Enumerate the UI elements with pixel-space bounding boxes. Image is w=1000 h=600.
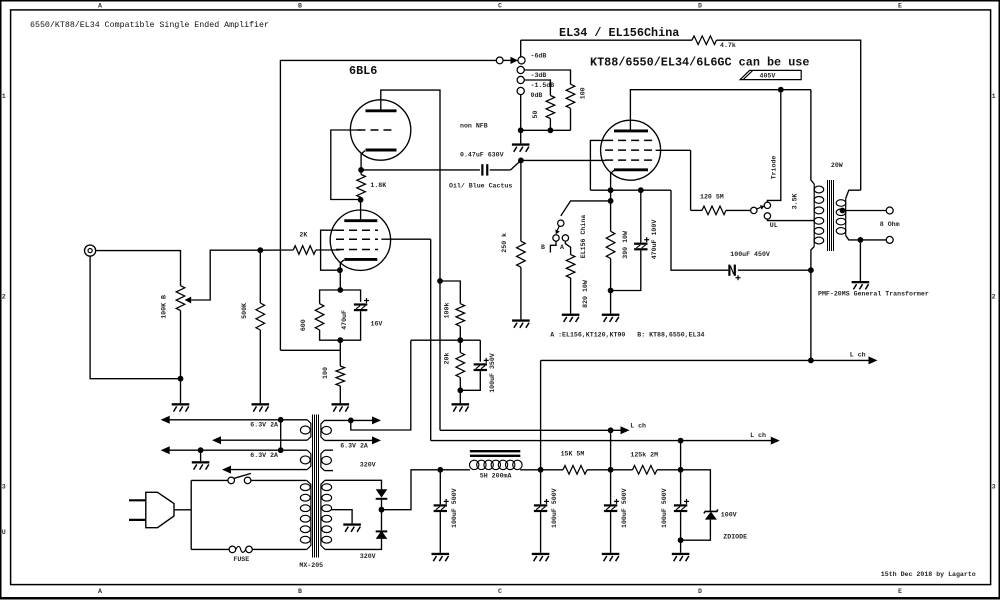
svg-text:20W: 20W: [831, 162, 843, 169]
wire 2K to grid g1: [316, 249, 337, 251]
arrow heater rail A: [161, 416, 170, 424]
arrow heater right bottom: [372, 436, 381, 444]
wire AC split: [190, 480, 192, 549]
svg-text:2K: 2K: [299, 232, 307, 239]
wire connector to arrow: [503, 59, 511, 61]
label L ch B+ rail: [850, 352, 866, 359]
wire heater rail B: [221, 439, 308, 441]
node V1a plate divider tap: [437, 278, 443, 284]
node divider tap: [457, 337, 463, 343]
wire B stub: [550, 241, 556, 252]
svg-text:2: 2: [992, 293, 996, 300]
stub winding lead top: [324, 449, 333, 451]
ground cap2: [532, 553, 550, 561]
frame zone number 3 right: [992, 483, 996, 490]
resistor 50: [546, 96, 555, 119]
ground cathode network: [332, 403, 350, 411]
label A contact: [560, 244, 564, 251]
wire D1 to node: [381, 500, 383, 510]
wire 50 bottom: [549, 119, 551, 131]
label L ch rail1: [630, 423, 646, 430]
label 470uF 100V: [651, 220, 658, 260]
wire 470uF100V top: [640, 190, 642, 242]
wire HV top lead: [325, 480, 382, 489]
svg-text:MX-205: MX-205: [299, 562, 323, 569]
terminal 8 ohm hot: [886, 207, 893, 214]
label tube choice note: [550, 332, 704, 339]
wire 500K bottom: [259, 330, 261, 403]
wire heater right bottom: [324, 439, 372, 441]
wire 390 top: [610, 190, 612, 231]
wire cap2 stem top: [540, 470, 542, 505]
svg-text:D: D: [698, 588, 702, 595]
label PMF-20MS General Transformer: [818, 290, 929, 297]
svg-text:100uF 500V: 100uF 500V: [661, 488, 668, 528]
svg-text:100k: 100k: [443, 303, 450, 319]
wire OPT primary bottom lead: [811, 247, 814, 271]
wire 390 bottom: [610, 259, 612, 314]
resistor 250 k: [517, 241, 526, 267]
node B+ cap1: [437, 467, 443, 473]
wire cathode bus to cap: [671, 190, 728, 270]
wire 500K top: [259, 250, 261, 303]
label L ch rail2: [750, 432, 766, 439]
wire pot bottom to ground: [180, 379, 182, 404]
switch AB contact A: [562, 235, 568, 241]
label 250 k: [501, 233, 508, 253]
svg-text:0.47uF 630V: 0.47uF 630V: [460, 152, 504, 159]
wire 250k top: [520, 160, 522, 241]
credit text: [881, 571, 976, 578]
frame zone letter D top: [698, 2, 702, 9]
svg-text:3.5K: 3.5K: [792, 193, 799, 209]
node rail A junction: [278, 417, 284, 423]
wire node3 to 125k: [611, 469, 633, 471]
coil heater winding 1 left: [300, 420, 311, 440]
terminal -3dB: [517, 66, 524, 73]
svg-text:Triode: Triode: [770, 156, 777, 180]
label 100uF 350V: [489, 353, 496, 393]
ground 390: [602, 314, 620, 322]
switch AB lever arrow: [555, 226, 559, 234]
svg-text:470uF 100V: 470uF 100V: [651, 220, 658, 260]
label 500K: [241, 303, 248, 319]
wire choke to node2: [520, 469, 540, 471]
wire 100 top: [339, 340, 341, 366]
svg-text:A :EL156,KT120,KT90 B: KT88,: A :EL156,KT120,KT90 B: KT88,6550,EL34: [550, 332, 704, 339]
resistor 500K: [256, 303, 265, 330]
svg-text:KT88/6550/EL34/6L6GC can be us: KT88/6550/EL34/6L6GC can be use: [590, 56, 809, 70]
arrow into -6dB terminal: [511, 57, 519, 64]
node AB switch tap: [608, 198, 614, 204]
plug AC: [129, 492, 174, 527]
svg-text:5H 200mA: 5H 200mA: [480, 472, 512, 479]
switch power lever: [234, 473, 251, 478]
svg-text:EL34 / EL156China: EL34 / EL156China: [559, 26, 679, 40]
wire plate node to 100k: [440, 281, 460, 304]
title text: [30, 20, 269, 30]
wire Triode to plate node: [767, 90, 780, 202]
wire node4 to zener: [681, 470, 711, 512]
svg-text:0dB: 0dB: [531, 92, 543, 99]
arrow rail1 L ch: [621, 426, 630, 434]
svg-text:UL: UL: [770, 222, 778, 229]
svg-text:100uF 500V: 100uF 500V: [621, 488, 628, 528]
stub winding lead bottom: [324, 470, 333, 472]
wire V2 cathode: [611, 170, 614, 190]
wire V1b plate lead: [360, 200, 362, 221]
svg-text:500K: 500K: [241, 303, 248, 319]
node rail C ground junction: [198, 447, 204, 453]
wire cap to B+ node: [738, 269, 811, 271]
ground pot: [172, 403, 190, 411]
wire heater rail A: [169, 419, 307, 421]
label 100uF 500V #3: [621, 488, 628, 528]
label 4.7k: [720, 42, 736, 49]
wire to 470uF top: [340, 290, 360, 302]
svg-text:C: C: [498, 2, 502, 9]
wire 20k top: [459, 340, 461, 352]
ground 500K: [252, 403, 270, 411]
svg-text:3: 3: [992, 483, 996, 490]
svg-text:Oil/ Blue Cactus: Oil/ Blue Cactus: [449, 183, 512, 190]
wire A to 820: [565, 241, 570, 255]
arrow rail2 L ch: [771, 437, 780, 445]
wire 600 bottom: [320, 330, 341, 340]
wire NFB to -6dB terminal: [520, 40, 522, 57]
wire V1b g3 tie: [321, 230, 340, 270]
svg-text:ZDIODE: ZDIODE: [723, 534, 747, 541]
node ladder common left: [518, 127, 524, 133]
wire common to ground: [520, 130, 522, 143]
svg-text:8 Ohm: 8 Ohm: [880, 221, 900, 228]
node grid bus big tube: [518, 158, 524, 164]
svg-text:390 10W: 390 10W: [622, 231, 629, 259]
svg-text:250 k: 250 k: [501, 233, 508, 253]
wire rail C to ground: [200, 450, 202, 461]
frame zone letter A bottom: [98, 588, 102, 595]
wire jack to pot top: [96, 251, 181, 286]
wire V1a grid: [331, 130, 361, 200]
label 6BL6: [349, 64, 377, 78]
wire 1.8K bottom: [360, 198, 363, 200]
wire 820 bottom: [570, 278, 572, 314]
resistor 4.7k: [692, 36, 717, 45]
label 820 10W: [582, 280, 589, 308]
node pot top wire / 500K junction: [257, 247, 263, 253]
ground cap1: [432, 553, 450, 561]
node rail C junction: [278, 447, 284, 453]
wire 1.8K top: [360, 170, 362, 175]
capacitor 470uF 16V: [354, 298, 369, 311]
wire HV bottom lead: [325, 539, 382, 550]
svg-text:100: 100: [580, 87, 587, 99]
potentiometer 100K B: [176, 286, 185, 311]
capacitor 470uF 100V: [634, 237, 649, 250]
node 1.8K bottom / V2 plate: [358, 197, 364, 203]
resistor 820 10W: [566, 255, 575, 278]
label 100V: [721, 512, 737, 519]
svg-text:-6dB: -6dB: [531, 52, 547, 59]
node B+ rail OPT junction: [808, 358, 814, 364]
svg-text:-3dB: -3dB: [531, 72, 547, 79]
wire rail2 Lch: [431, 440, 772, 442]
wire D2 to node: [381, 510, 383, 531]
label -3dB: [531, 72, 547, 79]
label Triode: [770, 156, 777, 180]
resistor 20k: [456, 353, 465, 378]
capacitor 100uF 500V #1: [434, 499, 449, 512]
svg-text:A: A: [98, 588, 102, 595]
coil heater winding 2 left: [300, 450, 311, 469]
svg-text:15th Dec 2018 by Lagarto: 15th Dec 2018 by Lagarto: [881, 571, 976, 578]
switch contact Triode: [764, 202, 770, 208]
node 390 cap return: [608, 288, 614, 294]
capacitor 100uF 500V #2: [534, 499, 549, 512]
frame zone letter E bottom: [898, 588, 902, 595]
frame zone letter E top: [898, 2, 902, 9]
svg-text:E: E: [898, 2, 902, 9]
arrow heater rail B: [212, 436, 221, 444]
resistor 600: [315, 304, 324, 330]
coil OPT secondary: [836, 199, 846, 236]
label 100K B: [161, 295, 168, 319]
wire B+ to choke: [440, 469, 470, 471]
svg-text:B: B: [298, 2, 302, 9]
wire cap4 stem bottom: [680, 512, 682, 553]
wire screen rail down: [430, 239, 432, 440]
wire 100 bottom: [570, 108, 572, 130]
wire cap2 stem bottom: [540, 512, 542, 553]
svg-text:B: B: [298, 588, 302, 595]
ground divider: [452, 403, 470, 411]
node pot bottom / shield junction: [178, 376, 184, 382]
wire to 600 top: [320, 290, 341, 304]
switch power contact1: [228, 477, 235, 484]
resistor 1.8K: [357, 175, 366, 198]
svg-text:A: A: [98, 2, 102, 9]
node secondary ground junction: [858, 237, 864, 243]
svg-text:L ch: L ch: [850, 352, 866, 359]
svg-text:820 10W: 820 10W: [582, 280, 589, 308]
label -1.5dB: [531, 82, 555, 89]
wire heater rail C: [169, 449, 307, 451]
frame zone number 2 right: [992, 293, 996, 300]
arrow B+ rail L ch: [869, 356, 878, 364]
wire OPT primary top lead: [811, 90, 814, 184]
label 1.8K: [370, 182, 386, 189]
wire bus to cathode network: [280, 349, 340, 351]
wire OPT secondary bottom lead: [846, 236, 887, 240]
coil primary MX: [300, 480, 311, 549]
node cathode network bottom: [337, 337, 343, 343]
wire V1b g2 to screen rail: [381, 238, 430, 240]
node humdinger junction: [348, 418, 354, 424]
core OPT: [828, 180, 834, 251]
frame zone number 2 left: [2, 293, 6, 300]
wire HV center tap: [332, 510, 353, 524]
svg-text:100uF 450V: 100uF 450V: [730, 251, 770, 258]
wire cap3 stem top: [610, 470, 612, 505]
wire secondary to ground: [859, 240, 861, 281]
wire V2 cathode bus: [590, 189, 671, 191]
svg-text:16V: 16V: [371, 321, 383, 328]
svg-text:E: E: [898, 588, 902, 595]
coil stub winding right: [321, 450, 332, 470]
ground cap3: [602, 553, 620, 561]
frame zone letter D bottom: [698, 588, 702, 595]
label 20W: [831, 162, 843, 169]
node V1b cathode g3 junction: [337, 267, 343, 273]
label 20k: [443, 353, 450, 365]
svg-text:EL156 China: EL156 China: [580, 215, 587, 259]
svg-text:6.3V 2A: 6.3V 2A: [340, 443, 368, 450]
label 6.3V 2A rail C: [250, 452, 278, 459]
svg-text:50: 50: [532, 111, 539, 119]
resistor 125k 2M: [633, 466, 658, 475]
node B+ cap2: [538, 467, 544, 473]
arrow heater rail C: [161, 446, 170, 454]
wire heater bias humdinger: [351, 340, 411, 430]
svg-text:PMF-20MS General Transformer: PMF-20MS General Transformer: [818, 290, 929, 297]
label 15K 5M: [561, 450, 585, 457]
wire grid bus to V2 output tube: [521, 159, 606, 161]
label 16V: [371, 321, 383, 328]
wire UL tap: [767, 219, 814, 221]
svg-text:15K 5M: 15K 5M: [561, 450, 585, 457]
node zener return: [678, 537, 684, 543]
switch UL common: [751, 207, 757, 213]
wire zener bottom: [681, 520, 711, 541]
capacitor 100uF 350V: [474, 358, 489, 371]
wire input bus top: [280, 60, 496, 350]
label 320V top: [360, 462, 376, 469]
switch lever NFB: [511, 160, 521, 170]
wire 250k bottom: [520, 267, 522, 319]
resistor 2K: [293, 246, 316, 255]
fuse F1: [229, 546, 252, 553]
capacitor 100uF 500V #4: [674, 499, 689, 512]
label ZDIODE: [723, 534, 747, 541]
wire B+ takeoff: [382, 470, 441, 510]
input jack J1: [85, 245, 96, 256]
terminal -1.5dB: [517, 76, 524, 83]
diode D2: [376, 530, 388, 539]
svg-text:1.8K: 1.8K: [370, 182, 386, 189]
label 100 cathode: [322, 367, 329, 379]
label 8 Ohm: [880, 221, 900, 228]
wire V1b cathode: [340, 260, 344, 270]
heading EL34 / EL156China: [559, 26, 679, 40]
resistor 100k: [456, 304, 465, 327]
label UL: [770, 222, 778, 229]
svg-text:100uF 350V: 100uF 350V: [489, 353, 496, 393]
node B+ cap3: [608, 467, 614, 473]
wire AB switch feed: [561, 201, 611, 216]
label 320V bottom: [360, 553, 376, 560]
label 600: [300, 319, 307, 331]
wire 125k to node4: [657, 469, 681, 471]
arrow heater rail D: [222, 466, 231, 474]
wire cap4 stem top: [680, 470, 682, 505]
coil OPT primary: [814, 184, 824, 247]
svg-text:6.3V 2A: 6.3V 2A: [250, 452, 278, 459]
svg-text:FUSE: FUSE: [233, 556, 249, 563]
label 100 attenuator: [580, 87, 587, 99]
wire cap1 stem bottom: [439, 512, 441, 553]
wire rail2 to B+ node4: [680, 441, 682, 470]
wire wiper to grid bus: [191, 250, 260, 300]
label MX-205: [299, 562, 323, 569]
svg-text:A: A: [560, 244, 564, 251]
switch contact UL: [764, 213, 770, 219]
wire V1a cathode: [361, 151, 365, 170]
frame zone letter B bottom: [298, 588, 302, 595]
svg-text:U: U: [2, 529, 6, 536]
label non NFB: [460, 123, 488, 130]
wire V1a plate loop: [381, 90, 440, 281]
wire rail A to rail C: [280, 420, 282, 450]
arrow heater right top: [372, 416, 381, 424]
wire NFB top: [521, 39, 692, 41]
node rail2 junction: [678, 438, 684, 444]
svg-text:6BL6: 6BL6: [349, 64, 377, 78]
pot wiper arrow: [185, 297, 192, 304]
wire -1.5dB tap: [524, 80, 550, 96]
svg-text:100uF 500V: 100uF 500V: [451, 488, 458, 528]
svg-text:20k: 20k: [443, 353, 450, 365]
frame zone letter C top: [498, 2, 502, 9]
svg-text:100K B: 100K B: [161, 295, 168, 319]
label 0dB: [531, 92, 543, 99]
wire 470uF100V bottom: [611, 250, 641, 290]
wire node2 to 15K: [541, 469, 563, 471]
wire screen to 120: [691, 209, 702, 211]
svg-text:B: B: [541, 244, 545, 251]
ground heater: [192, 461, 210, 469]
node cathode bus right: [638, 187, 644, 193]
svg-text:6550/KT88/EL34 Compatible Sing: 6550/KT88/EL34 Compatible Single Ended A…: [30, 20, 269, 30]
wire heater right top: [324, 419, 372, 421]
wire cap1 stem top: [439, 470, 441, 505]
wire 100 bottom: [339, 386, 341, 403]
node rail1 junction: [608, 427, 614, 433]
wire V2 plate: [630, 90, 811, 131]
frame zone letter A top: [98, 2, 102, 9]
svg-text:125k 2M: 125k 2M: [630, 452, 658, 459]
label 6.3V 2A right: [340, 443, 368, 450]
wire heater rail D: [231, 469, 308, 471]
resistor 100 cathode: [336, 366, 345, 386]
zener diode 100V: [704, 509, 718, 519]
wire cap to switch: [490, 169, 511, 171]
label 100k: [443, 303, 450, 319]
node cathode network top: [337, 287, 343, 293]
wire screen drop: [690, 150, 692, 210]
label 470uF: [341, 310, 348, 330]
svg-text:600: 600: [300, 319, 307, 331]
wire cap 350V bottom: [460, 371, 480, 390]
svg-text:1: 1: [992, 93, 996, 100]
svg-text:470uF: 470uF: [341, 310, 348, 330]
coil heater winding right: [321, 420, 332, 440]
wire OPT to B+ rail: [810, 270, 812, 360]
node B+ cap4: [678, 467, 684, 473]
wire jack shield: [90, 256, 180, 379]
connector input circle: [496, 57, 503, 64]
label 405V: [760, 72, 776, 79]
wire cathode down: [339, 270, 341, 290]
